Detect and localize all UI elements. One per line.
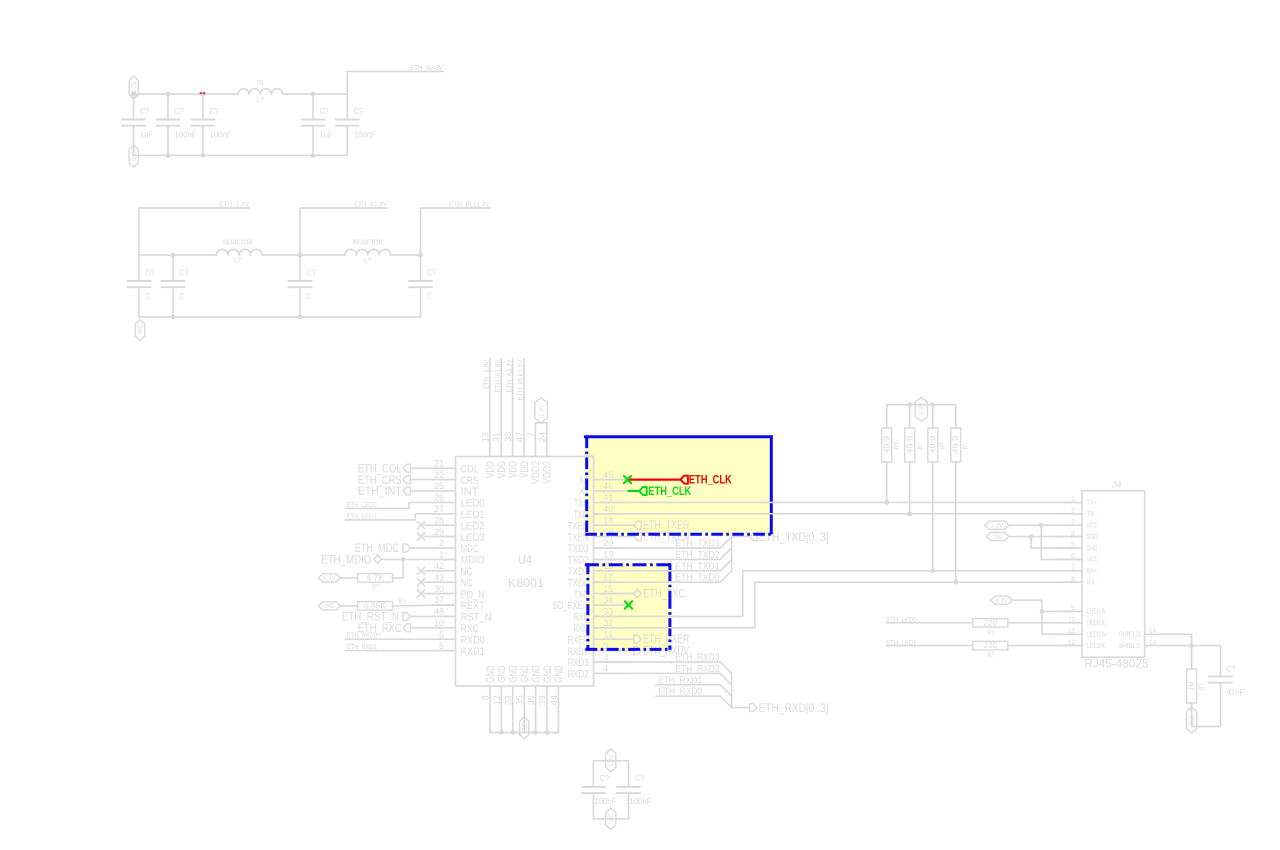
wire cap bottom lead #9 bbox=[420, 287, 422, 317]
junction VCC bbox=[1039, 523, 1044, 528]
junction TXM/terminator bbox=[907, 511, 912, 516]
hierarchical label ETH_CLK (red) bbox=[681, 473, 733, 487]
wire 3.3V rail above terminators bbox=[887, 404, 956, 406]
wire cap bottom lead #6 bbox=[138, 287, 140, 317]
wire TXC stub bbox=[594, 593, 634, 595]
wire decoupling top rail bbox=[593, 760, 628, 762]
no-connect pin 30 bbox=[417, 590, 424, 597]
capacitor C? (1uF) #4 bbox=[302, 120, 325, 126]
wire terminator R2 bottom lead bbox=[909, 462, 911, 514]
selection highlight box 2 fill bbox=[586, 563, 671, 650]
svg-text:VCC: VCC bbox=[1086, 557, 1097, 564]
pin 41 TXP (right) bbox=[574, 493, 627, 510]
net label ETH_RXD3 bbox=[676, 653, 720, 664]
wire rext resistor to pin 37 bbox=[393, 604, 456, 607]
resistor R? 220 #2 bbox=[973, 641, 1008, 650]
junction bbox=[166, 153, 171, 158]
pin 12 LED2K (J4) bbox=[1059, 639, 1106, 650]
wire GND to R rext bbox=[341, 605, 358, 607]
svg-text:MDC: MDC bbox=[461, 543, 479, 555]
net label ETH_RXD1 bbox=[658, 675, 702, 686]
svg-text:7: 7 bbox=[1071, 565, 1075, 572]
pin 28 LED2 (left) bbox=[433, 515, 485, 532]
pin 30 PD_N (left) bbox=[433, 584, 485, 601]
svg-text:20: 20 bbox=[603, 538, 613, 548]
wire ETH_LED1 to R bbox=[886, 645, 973, 647]
junction bbox=[298, 253, 303, 258]
svg-text:RXDV: RXDV bbox=[568, 646, 589, 658]
svg-text:44: 44 bbox=[549, 695, 559, 705]
svg-text:R?: R? bbox=[399, 598, 406, 605]
wire terminator R3 bottom lead bbox=[932, 462, 934, 571]
junction bbox=[311, 92, 316, 97]
wire terminator R4 top lead bbox=[955, 405, 957, 428]
pin 29 LED3 (left) bbox=[433, 527, 485, 544]
svg-text:47: 47 bbox=[515, 432, 525, 442]
wire C bottom to GND bbox=[1192, 683, 1221, 727]
wire RXP over border bbox=[663, 615, 678, 617]
pin 3 RXD3 (right) bbox=[568, 652, 627, 669]
wire ETH_1.8V stub bbox=[139, 207, 249, 209]
junction bbox=[131, 92, 136, 97]
junction GND bbox=[1029, 534, 1034, 539]
pin 8 RX- (J4) bbox=[1059, 576, 1098, 587]
svg-text:R?: R? bbox=[987, 652, 994, 659]
svg-text:8: 8 bbox=[1071, 576, 1075, 583]
junction shield bbox=[1189, 643, 1194, 648]
svg-text:2: 2 bbox=[439, 538, 444, 548]
power symbol GND vertical #2 bbox=[135, 320, 145, 341]
svg-text:TXD3: TXD3 bbox=[568, 543, 589, 555]
global label GND (rext) bbox=[318, 602, 341, 610]
svg-text:ETH_RXD0: ETH_RXD0 bbox=[347, 632, 377, 639]
hierarchical label ETH_RST_N bbox=[342, 610, 433, 624]
wire decap bottom lead #2 bbox=[628, 793, 630, 819]
svg-text:LED2A: LED2A bbox=[1086, 632, 1105, 639]
svg-text:C: C bbox=[427, 292, 431, 301]
svg-text:LED1A: LED1A bbox=[1086, 609, 1105, 616]
svg-text:3: 3 bbox=[603, 652, 608, 662]
svg-text:LED2: LED2 bbox=[461, 520, 485, 532]
pin 7 VDD2 (top) bbox=[526, 432, 542, 484]
connector J4 body bbox=[1082, 491, 1145, 658]
junction LED1A bbox=[1040, 609, 1045, 614]
svg-text:GND: GND bbox=[1189, 715, 1196, 725]
svg-text:C: C bbox=[180, 292, 184, 301]
svg-text:13: 13 bbox=[480, 432, 490, 442]
no-connect pin 28 bbox=[417, 522, 424, 529]
svg-text:GND: GND bbox=[324, 603, 334, 610]
capacitor C? (100nF) #3 bbox=[192, 120, 215, 126]
selected wire ETH_CLK (green) bbox=[628, 490, 639, 492]
wire ETH_LED0 to R bbox=[886, 622, 973, 624]
junction bbox=[201, 153, 206, 158]
svg-text:100nF: 100nF bbox=[629, 797, 651, 806]
pin 31 VDD (top) bbox=[492, 432, 508, 478]
svg-text:ETH_TXD3: ETH_TXD3 bbox=[676, 539, 720, 550]
no-connect pin 34 (green X) bbox=[625, 601, 632, 608]
selection highlight box 1 fill bbox=[585, 435, 771, 534]
svg-text:1.8V: 1.8V bbox=[538, 403, 545, 417]
svg-text:C?: C? bbox=[320, 107, 329, 116]
svg-text:17: 17 bbox=[603, 572, 613, 582]
svg-text:14: 14 bbox=[603, 515, 613, 525]
svg-text:1: 1 bbox=[439, 550, 444, 560]
wire cap C3 top lead bbox=[202, 94, 204, 120]
junction bbox=[166, 92, 171, 97]
svg-text:ETH_1.8V: ETH_1.8V bbox=[219, 202, 249, 209]
svg-text:L?: L? bbox=[364, 258, 371, 265]
junction bbox=[510, 730, 515, 735]
capacitor C? (C) #9 bbox=[409, 281, 432, 287]
junction bbox=[930, 402, 935, 407]
pin 20 TXD3 (right) bbox=[568, 538, 627, 555]
svg-text:45: 45 bbox=[603, 470, 613, 480]
wire R to GND bbox=[1191, 703, 1193, 727]
svg-text:RX-: RX- bbox=[1086, 580, 1098, 587]
svg-text:ETH_TXD2: ETH_TXD2 bbox=[676, 550, 720, 561]
selection highlight box 1 border bbox=[584, 435, 773, 535]
capacitor C? (100nF) #5 bbox=[336, 120, 359, 126]
svg-text:COL: COL bbox=[461, 463, 479, 475]
pin 34 SD_FXEN (right) bbox=[553, 595, 627, 612]
hierarchical label ETH_TXEN bbox=[627, 530, 690, 544]
svg-text:RJ45-48025: RJ45-48025 bbox=[1084, 657, 1148, 671]
svg-text:C?: C? bbox=[354, 107, 363, 116]
svg-text:MDIO: MDIO bbox=[461, 555, 485, 567]
pin 11 RXER (right) bbox=[568, 629, 627, 646]
wire 3.3V to LED anodes bbox=[1013, 600, 1082, 634]
svg-text:35: 35 bbox=[515, 695, 525, 705]
net label ETH_LED1 (right) bbox=[886, 640, 916, 647]
svg-text:6: 6 bbox=[439, 629, 444, 639]
junction bbox=[907, 402, 912, 407]
pin 46 XI (right) bbox=[579, 481, 627, 498]
wire shield to C bbox=[1192, 646, 1221, 677]
pin 23 GND (bottom) bbox=[503, 665, 519, 732]
junction RXM/terminator bbox=[953, 580, 958, 585]
wire RXM to J4 pin8 bbox=[594, 582, 1082, 628]
svg-text:SHIELD: SHIELD bbox=[1119, 632, 1141, 639]
pin 36 GND (bottom) bbox=[526, 665, 542, 732]
wire ETH_1.8V supply riser bbox=[489, 359, 491, 457]
pin 47 VDD (top) bbox=[515, 432, 531, 478]
pin 14 SHIELD (J4) bbox=[1119, 628, 1168, 639]
pin 3 VCC (J4) bbox=[1059, 519, 1097, 530]
svg-text:C?: C? bbox=[600, 774, 609, 783]
wire terminator R1 bottom lead bbox=[886, 462, 888, 502]
wire VCC to J4 pin6 bbox=[1041, 525, 1082, 559]
net label ETH_LED1 bbox=[347, 514, 377, 521]
wire TXP over border bbox=[762, 501, 780, 503]
resistor R? 49.9 #2 bbox=[905, 428, 915, 462]
pin 6 VCC (J4) bbox=[1059, 553, 1097, 564]
svg-text:4.7K: 4.7K bbox=[366, 574, 385, 583]
wire left drop bbox=[138, 208, 140, 255]
svg-text:LED1: LED1 bbox=[461, 509, 485, 521]
svg-text:REXT: REXT bbox=[461, 600, 485, 612]
svg-text:C?: C? bbox=[140, 107, 149, 116]
wire GND rail under IC bbox=[490, 732, 558, 734]
wire cap C1 bottom lead bbox=[133, 126, 135, 156]
svg-text:27: 27 bbox=[434, 504, 444, 514]
wire TXM to J4 pin2 bbox=[594, 513, 1082, 515]
svg-text:22: 22 bbox=[434, 470, 444, 480]
junction bbox=[171, 315, 176, 320]
svg-text:23: 23 bbox=[503, 695, 513, 705]
pin 33 RXP (right) bbox=[574, 607, 627, 624]
pin 11 LED2A (J4) bbox=[1059, 628, 1106, 639]
wire cap C? top lead #7 bbox=[172, 255, 174, 281]
svg-text:ETH_CLK: ETH_CLK bbox=[648, 484, 691, 498]
wire ETH_LED1 to pin 27 bbox=[346, 514, 456, 520]
svg-text:INDUCTOR: INDUCTOR bbox=[353, 240, 383, 247]
svg-text:ETH_A3.3V: ETH_A3.3V bbox=[410, 65, 443, 72]
wire ETH_RXD1 to pin 5 bbox=[346, 650, 456, 652]
svg-text:40: 40 bbox=[603, 504, 613, 514]
svg-text:29: 29 bbox=[434, 527, 444, 537]
svg-text:R?: R? bbox=[372, 584, 379, 591]
svg-text:GND: GND bbox=[608, 813, 615, 823]
net label ETH_LED0 bbox=[347, 502, 377, 509]
wire SHIELD14 to R bbox=[1168, 634, 1192, 669]
svg-text:47nF: 47nF bbox=[1226, 688, 1244, 697]
wire cap C2 bottom lead bbox=[167, 126, 169, 156]
pin 12 GND (bottom) bbox=[492, 665, 508, 732]
svg-text:ETH_RXD0: ETH_RXD0 bbox=[658, 687, 702, 698]
svg-text:19: 19 bbox=[603, 550, 613, 560]
wire GND to J4 pin5 bbox=[1031, 537, 1082, 548]
inductor L? #1 bbox=[216, 249, 262, 255]
wire ETH_A1.8V riser bbox=[300, 208, 387, 255]
capacitor C? 100nF decoupling #1 bbox=[582, 787, 605, 793]
wire cap C? top lead #9 bbox=[420, 255, 422, 281]
wire decoupling bottom rail bbox=[593, 818, 628, 820]
power symbol GND vertical bbox=[129, 145, 138, 167]
bus entry ETH_RXD2 bbox=[720, 673, 732, 684]
bus entry ETH_RXD3 bbox=[720, 662, 732, 673]
svg-text:LED2K: LED2K bbox=[1086, 643, 1105, 650]
svg-text:FB: FB bbox=[257, 80, 264, 87]
svg-text:ETH_RXD[0..3]: ETH_RXD[0..3] bbox=[759, 701, 829, 715]
svg-text:ETH_A1.8V: ETH_A1.8V bbox=[354, 202, 387, 209]
pin 14 TXER (right) bbox=[568, 515, 627, 532]
svg-text:GND: GND bbox=[993, 534, 1003, 541]
svg-text:49.9: 49.9 bbox=[882, 435, 891, 454]
junction bbox=[171, 253, 176, 258]
wire ETH_A1.8V supply riser bbox=[500, 359, 502, 457]
svg-text:INT: INT bbox=[461, 486, 479, 498]
wire cap bottom lead #7 bbox=[172, 287, 174, 317]
svg-text:100nF: 100nF bbox=[354, 130, 376, 139]
wire cap C4 bottom lead bbox=[312, 126, 314, 156]
svg-text:ETH_PLL1.8V: ETH_PLL1.8V bbox=[449, 202, 490, 209]
svg-text:3.3V: 3.3V bbox=[995, 598, 1009, 605]
net label ETH_TXD2 bbox=[676, 550, 720, 561]
pin 4 RXD2 (right) bbox=[568, 664, 627, 681]
wire mid rail c bbox=[391, 254, 421, 256]
global label 3.3V vertical (terminators) bbox=[915, 397, 927, 421]
IC U4 K8001 body bbox=[456, 457, 594, 687]
svg-text:12: 12 bbox=[492, 695, 502, 705]
wire bottom rail (gnd) bbox=[134, 154, 348, 156]
svg-text:13: 13 bbox=[1149, 639, 1156, 646]
svg-text:CRS: CRS bbox=[461, 475, 479, 487]
svg-text:TXD0: TXD0 bbox=[568, 577, 589, 589]
wire mid rail b bbox=[262, 254, 345, 256]
svg-text:ETH_TXC: ETH_TXC bbox=[643, 587, 685, 601]
pin 37 REXT (left) bbox=[433, 595, 485, 612]
wire pullup to MDIO bbox=[393, 559, 404, 578]
wire cap C5 bottom lead bbox=[346, 126, 348, 156]
svg-text:8: 8 bbox=[481, 695, 491, 700]
inductor L? #2 bbox=[345, 249, 391, 255]
junction TXP/terminator bbox=[884, 500, 889, 505]
hierarchical label ETH_MDIO bbox=[321, 553, 381, 567]
svg-text:GND: GND bbox=[496, 665, 508, 682]
wire ETH_LED0 to pin 26 bbox=[346, 502, 456, 508]
junction bbox=[201, 92, 206, 97]
wire pin30 stub bbox=[424, 593, 456, 595]
svg-text:GND: GND bbox=[1086, 534, 1097, 541]
svg-text:ETH_RXD1: ETH_RXD1 bbox=[658, 675, 702, 686]
wire cap C2 top lead bbox=[167, 94, 169, 120]
wire TXD1 over border bbox=[663, 570, 678, 572]
capacitor C? (C) #6 bbox=[128, 281, 151, 287]
svg-text:C?: C? bbox=[180, 269, 189, 278]
junction bbox=[311, 153, 316, 158]
selection highlight box 2 border bbox=[585, 563, 673, 650]
junction MDIO/pullup bbox=[401, 557, 406, 562]
hierarchical label ETH_MDC bbox=[355, 541, 433, 555]
svg-text:30: 30 bbox=[434, 584, 444, 594]
capacitor C? (1uF) #1 bbox=[122, 120, 145, 126]
pin 35 GND (bottom) bbox=[515, 665, 531, 732]
wire RXM over border bbox=[663, 627, 678, 629]
resistor R? 4.7K bbox=[358, 574, 393, 583]
resistor R? 220 #1 bbox=[973, 619, 1008, 628]
wire decap top lead #1 bbox=[592, 761, 594, 787]
svg-text:3.3V: 3.3V bbox=[990, 523, 1004, 530]
pin 21 COL (left) bbox=[433, 458, 479, 475]
wire cap C3 bottom lead bbox=[202, 126, 204, 156]
svg-text:11: 11 bbox=[603, 629, 613, 639]
global label supply (decoupling) bbox=[606, 749, 616, 772]
wire ETH_TXD1 bbox=[594, 570, 721, 572]
pin 48 RST_N (left) bbox=[433, 607, 492, 624]
wire cap C4 top lead bbox=[312, 94, 314, 120]
power symbol GND (shield) bbox=[1186, 707, 1196, 733]
svg-text:15: 15 bbox=[603, 584, 613, 594]
svg-text:24: 24 bbox=[537, 432, 547, 442]
svg-text:GND: GND bbox=[131, 151, 138, 161]
svg-text:C?: C? bbox=[175, 107, 184, 116]
svg-text:ETH_CLK: ETH_CLK bbox=[689, 473, 732, 487]
wire to ETH_A3.3V bbox=[347, 71, 443, 94]
svg-text:1M: 1M bbox=[1187, 681, 1196, 690]
svg-text:34: 34 bbox=[603, 595, 613, 605]
net label ETH_RXD0 bbox=[658, 687, 702, 698]
svg-text:INDUCTOR: INDUCTOR bbox=[223, 240, 253, 247]
svg-text:C?: C? bbox=[427, 269, 436, 278]
wire cap C5 top lead bbox=[346, 94, 348, 120]
svg-text:GND: GND bbox=[137, 325, 144, 335]
highlighted wire ETH_CLK (red) bbox=[628, 479, 680, 481]
svg-text:TX-: TX- bbox=[1086, 511, 1098, 518]
svg-text:49.9: 49.9 bbox=[928, 435, 937, 454]
svg-text:RXD1: RXD1 bbox=[461, 646, 485, 658]
pin 16 TXEN (right) bbox=[568, 527, 627, 544]
pin 27 LED1 (left) bbox=[433, 504, 485, 521]
svg-text:TXD1: TXD1 bbox=[568, 566, 589, 578]
wire R to J4 pin12 bbox=[1008, 645, 1082, 647]
svg-text:SD_FXEN: SD_FXEN bbox=[553, 600, 589, 612]
svg-text:C: C bbox=[307, 292, 311, 301]
net label ETH_LED0 (right) bbox=[886, 617, 916, 624]
svg-text:VDD2: VDD2 bbox=[542, 461, 554, 484]
svg-text:ETH_TXD0: ETH_TXD0 bbox=[676, 573, 720, 584]
pin 19 TXD2 (right) bbox=[568, 550, 627, 567]
svg-text:3.3V: 3.3V bbox=[323, 575, 337, 582]
svg-text:10: 10 bbox=[434, 618, 444, 628]
capacitor C? 100nF decoupling #2 bbox=[617, 787, 640, 793]
wire R to J4 pin10 bbox=[1008, 622, 1082, 624]
svg-text:R?: R? bbox=[940, 442, 947, 449]
svg-text:46: 46 bbox=[603, 481, 613, 491]
bus entry ETH_TXD3 bbox=[720, 537, 732, 548]
power symbol GND under IC bbox=[520, 717, 529, 739]
svg-text:39: 39 bbox=[538, 695, 548, 705]
wire ETH_RXD1 bbox=[656, 684, 720, 686]
pin 40 TXM (right) bbox=[574, 504, 627, 521]
svg-text:GND: GND bbox=[519, 665, 531, 682]
wire RXP to J4 pin7 bbox=[594, 571, 1082, 617]
power symbol GND (decoupling) bbox=[606, 808, 616, 829]
wire top rail left bbox=[134, 93, 239, 95]
svg-text:2: 2 bbox=[1071, 508, 1075, 515]
pin 13 VDD (top) bbox=[480, 432, 496, 478]
junction bbox=[533, 730, 538, 735]
svg-text:ETH_RXD2: ETH_RXD2 bbox=[676, 664, 720, 675]
svg-text:4: 4 bbox=[603, 664, 608, 674]
pin 10 LED1K (J4) bbox=[1059, 617, 1106, 628]
svg-text:42: 42 bbox=[434, 561, 444, 571]
svg-text:TXC: TXC bbox=[574, 589, 589, 601]
capacitor C? (C) #7 bbox=[162, 281, 185, 287]
svg-text:ETH_A1.8V: ETH_A1.8V bbox=[495, 359, 502, 392]
wire terminator R2 top lead bbox=[909, 405, 911, 428]
svg-text:GND: GND bbox=[508, 665, 520, 682]
ferrite bead FB L? bbox=[238, 89, 283, 94]
wire TXD0 over border bbox=[663, 581, 678, 583]
pin 7 RX+ (J4) bbox=[1059, 565, 1097, 576]
hierarchical label ETH_TXC bbox=[634, 587, 686, 601]
wire TXM over border bbox=[762, 513, 780, 515]
svg-text:220: 220 bbox=[984, 618, 997, 627]
svg-text:RX+: RX+ bbox=[1086, 568, 1097, 575]
wire decap bottom lead #1 bbox=[592, 793, 594, 819]
svg-text:1uF: 1uF bbox=[140, 130, 153, 139]
svg-text:PD_N: PD_N bbox=[461, 589, 485, 601]
svg-text:100nF: 100nF bbox=[175, 130, 197, 139]
svg-text:ETH_RXD1: ETH_RXD1 bbox=[347, 644, 377, 651]
svg-text:GND: GND bbox=[521, 723, 528, 733]
svg-text:ETH_MDIO: ETH_MDIO bbox=[321, 553, 371, 567]
wire ETH_TXD2 bbox=[594, 558, 721, 560]
wire terminator R4 bottom lead bbox=[955, 462, 957, 582]
pin 10 RXC (left) bbox=[433, 618, 479, 635]
resistor R? 1M (shield) bbox=[1187, 669, 1197, 703]
